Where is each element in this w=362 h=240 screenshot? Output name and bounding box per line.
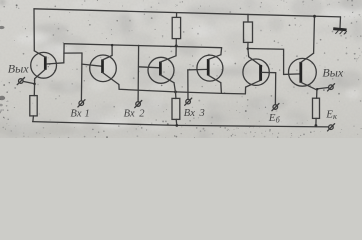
resistor R1 [172, 17, 180, 38]
wire Q1 emitter down [33, 79, 35, 96]
wire Vykh tap [23, 81, 34, 83]
wire R2 down [247, 42, 249, 48]
wire Vykh right tap [317, 88, 328, 89]
wire Q3 collector to bus [175, 46, 177, 56]
terminal Vykh right [328, 84, 335, 91]
resistor R2 [244, 22, 253, 42]
node R4 bottom rail [175, 124, 178, 127]
wire bus left drop [63, 44, 65, 63]
wire Rk to rail [315, 118, 317, 125]
wire emitter bus [119, 85, 245, 94]
wire R1 to rail [176, 13, 178, 18]
wire R2 branch to Q6 base [248, 49, 301, 75]
node tap [316, 88, 318, 90]
node Q2 collector bus [111, 44, 114, 47]
node Rk rail [315, 124, 318, 127]
transistor Q3 [148, 56, 176, 84]
svg-text:Вх 1: Вх 1 [70, 108, 90, 119]
transistor Q1 [31, 51, 64, 79]
wire Q2 collector to bus [111, 45, 113, 55]
wire Vkh2 vertical [137, 45, 140, 101]
wire Q4 emitter down [220, 83, 223, 94]
wire top supply rail [34, 9, 341, 17]
svg-text:Еб: Еб [268, 112, 281, 125]
wire R4 to bottom rail [175, 119, 178, 125]
svg-text:Вх 2: Вх 2 [124, 108, 146, 119]
terminal Vkh1 [78, 100, 85, 107]
wire Eb vertical [274, 73, 276, 105]
wire Q6 collector to rail [313, 16, 316, 53]
node rail Q6 [313, 15, 316, 18]
wire rail right drop to chassis [339, 17, 342, 28]
wire Vkh1 vertical [80, 53, 83, 101]
wire Q5 emitter riser [245, 80, 260, 94]
svg-text:Вых: Вых [8, 62, 29, 76]
svg-text:Вых: Вых [322, 66, 343, 80]
terminal Eb [272, 104, 279, 111]
resistor R3 [30, 96, 37, 116]
node bus R1 Q3 [175, 44, 178, 47]
node below R2 [247, 47, 250, 50]
wire R4 top [175, 92, 177, 99]
terminal Ek [328, 124, 335, 131]
terminal Vkh3 [185, 98, 192, 105]
wire Q5 base lead [262, 71, 276, 73]
wire Q3 emitter down [174, 83, 175, 92]
wire Q2 base lead [82, 64, 103, 66]
transistor Q6 [289, 53, 317, 90]
wire Q4 base lead [188, 68, 208, 71]
ground chassis symbol [333, 29, 346, 30]
wire R3 to bottom rail [32, 116, 35, 122]
terminal Vykh left [17, 78, 24, 85]
resistor Rk [313, 98, 320, 118]
node emitter output junction [33, 83, 36, 86]
transistor Q5 [243, 59, 269, 85]
wire Q1 collector to rail [33, 9, 35, 51]
wire Q5 collector [248, 49, 261, 66]
wire R2 to rail [247, 14, 249, 22]
wire Q4 collector to bus end [220, 48, 223, 55]
terminal Vkh2 [135, 101, 142, 108]
wire Q6 emitter down [316, 90, 318, 98]
wire jog to input node [64, 52, 82, 54]
node emitter resistor junction [174, 91, 177, 94]
svg-text:Ек: Ек [325, 108, 338, 121]
wire bus second rail [64, 44, 222, 48]
wire Vkh3 vertical [187, 70, 189, 99]
wire bottom rail [33, 122, 329, 127]
resistor R4 [172, 98, 180, 119]
transistor Q4 [197, 55, 223, 83]
wire R1 to bus [175, 39, 177, 46]
wire Q3 base lead [139, 67, 161, 68]
svg-text:Вх 3: Вх 3 [184, 108, 205, 119]
transistor Q2 [90, 55, 119, 84]
